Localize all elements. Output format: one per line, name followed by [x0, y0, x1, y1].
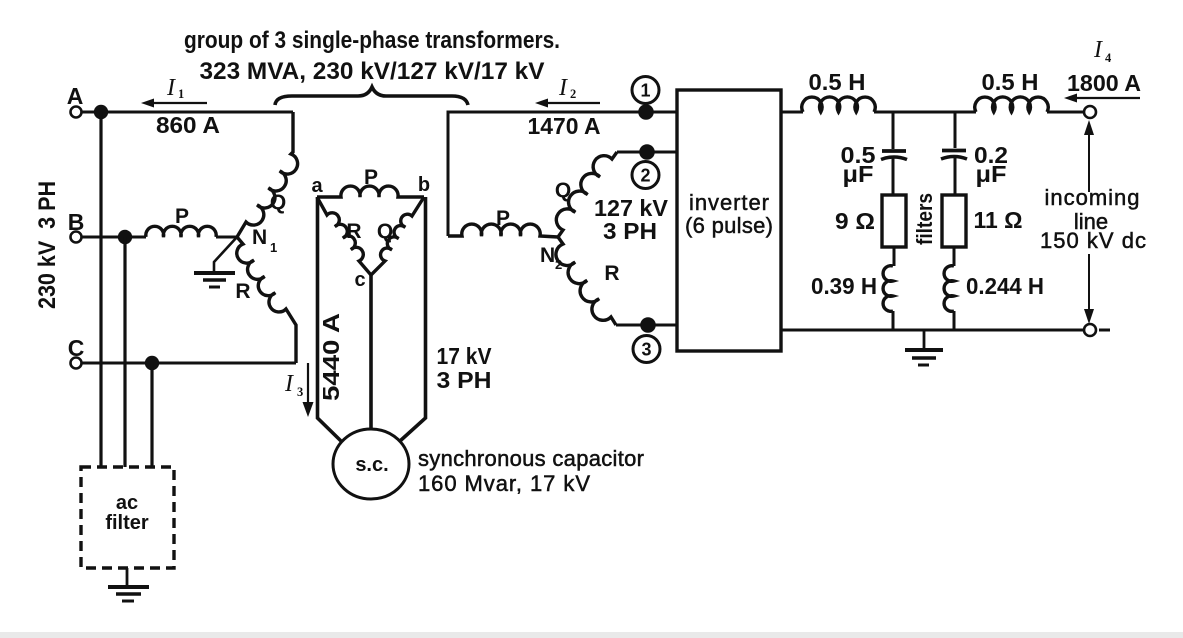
winding R2 coil: [556, 237, 616, 325]
svg-text:1: 1: [178, 87, 184, 101]
wire node3: [616, 324, 677, 327]
node 1 dot: [638, 104, 654, 120]
svg-text:filters: filters: [912, 193, 937, 245]
svg-text:R: R: [346, 220, 361, 243]
current arrow I1: [149, 102, 207, 104]
svg-text:filter: filter: [105, 512, 149, 534]
wire phase A horizontal: [82, 111, 293, 114]
svg-text:17 kV: 17 kV: [437, 343, 493, 369]
winding Q1 coil: [237, 112, 298, 237]
bottom page edge strip: [0, 632, 1183, 638]
svg-text:a: a: [311, 175, 323, 197]
svg-text:3: 3: [297, 385, 303, 399]
ground dc lead: [923, 330, 926, 348]
terminal dc minus: [1084, 324, 1096, 336]
wire P1 to N1: [216, 236, 237, 239]
inductor 0.5 H right: [975, 97, 1048, 112]
svg-text:860 A: 860 A: [156, 112, 220, 138]
node 1 circled: [632, 77, 659, 104]
svg-text:I: I: [284, 371, 294, 397]
node 2 dot: [639, 144, 655, 160]
winding R1 coil: [237, 237, 296, 363]
capacitor 0.2uF plates: [942, 149, 966, 153]
inductor 0.5 H left: [802, 97, 875, 112]
filter branch 2 wire bottom: [953, 311, 956, 330]
svg-text:(6 pulse): (6 pulse): [685, 213, 773, 238]
winding P2 coil: [448, 224, 558, 237]
svg-text:0.244 H: 0.244 H: [966, 273, 1044, 299]
node A junction dot: [94, 105, 108, 119]
svg-text:323 MVA, 230 kV/127 kV/17 kV: 323 MVA, 230 kV/127 kV/17 kV: [200, 58, 545, 85]
wire I2 top: [448, 112, 677, 236]
node 3 circled: [633, 336, 660, 363]
svg-text:b: b: [418, 174, 430, 196]
filter branch 1 wire mid: [892, 158, 895, 196]
svg-text:230 kV 3 PH: 230 kV 3 PH: [34, 181, 61, 309]
inverter box: [677, 90, 781, 351]
capacitor 0.5uF plates: [882, 149, 906, 153]
wire node2: [617, 151, 677, 154]
filter branch 2 wire mid: [954, 157, 957, 195]
svg-text:I: I: [558, 75, 568, 101]
filter branch 1 wire upper: [892, 112, 895, 149]
wire C-dot vertical to ac filter: [150, 363, 153, 467]
ac filter box: [81, 467, 174, 568]
resistor 11 ohm box: [942, 195, 966, 247]
svg-text:0.39 H: 0.39 H: [811, 273, 877, 299]
terminal A: [71, 107, 82, 118]
svg-text:N: N: [252, 226, 267, 249]
svg-text:4: 4: [1105, 51, 1112, 65]
svg-text:0.5 H: 0.5 H: [809, 69, 866, 95]
svg-text:group of 3 single-phase transf: group of 3 single-phase transformers.: [184, 27, 560, 54]
svg-text:11 Ω: 11 Ω: [974, 207, 1023, 233]
wire delta b to s.c.: [400, 197, 426, 441]
svg-text:3 PH: 3 PH: [603, 218, 657, 244]
svg-text:B: B: [68, 209, 85, 235]
svg-text:ac: ac: [116, 492, 138, 514]
svg-text:Q: Q: [377, 220, 393, 243]
inductor 0.39 H: [883, 266, 893, 312]
svg-text:P: P: [496, 207, 510, 230]
svg-text:9 Ω: 9 Ω: [835, 208, 875, 234]
wire dc bottom bus: [781, 329, 1084, 332]
svg-text:N: N: [540, 244, 555, 267]
svg-text:2: 2: [570, 87, 576, 101]
resistor 9 ohm box: [882, 195, 906, 247]
filter branch 2 wire lower: [953, 247, 956, 266]
svg-text:c: c: [354, 269, 365, 291]
node 3 dot: [640, 317, 656, 333]
svg-text:2: 2: [640, 166, 650, 186]
ground at N1 bars: [194, 271, 235, 275]
wire delta a to s.c.: [318, 197, 342, 441]
svg-text:3: 3: [641, 340, 651, 360]
svg-text:inverter: inverter: [689, 190, 769, 215]
svg-text:R: R: [235, 280, 250, 303]
ground below ac filter lead: [126, 568, 129, 586]
terminal dc plus: [1084, 106, 1096, 118]
wire dc top bus: [781, 111, 1084, 114]
svg-text:P: P: [175, 205, 189, 228]
incoming line arrow upper: [1088, 130, 1090, 192]
svg-text:Q: Q: [270, 191, 286, 214]
svg-text:incoming: incoming: [1045, 185, 1140, 210]
node 2 circled: [632, 162, 659, 189]
current arrow I4: [1072, 97, 1140, 99]
ground dc bars: [905, 348, 943, 352]
wire phase B: [82, 236, 146, 239]
current arrow I2: [543, 102, 600, 104]
wire delta c to s.c.: [369, 275, 373, 430]
svg-text:Q: Q: [555, 179, 571, 202]
filter branch 1 wire lower: [893, 247, 896, 266]
winding P delta top coil: [317, 186, 424, 197]
wire A-dot vertical to ac filter: [99, 112, 102, 467]
svg-text:μF: μF: [976, 161, 1007, 187]
winding P1 coil: [146, 226, 216, 237]
svg-text:synchronous capacitor: synchronous capacitor: [418, 446, 644, 471]
svg-text:A: A: [67, 83, 84, 109]
synchronous capacitor circle: [333, 429, 409, 499]
svg-text:I: I: [1093, 37, 1103, 63]
svg-text:μF: μF: [843, 161, 874, 187]
svg-text:C: C: [68, 335, 85, 361]
ground at N1 lead: [214, 237, 237, 272]
label minus: [1099, 329, 1110, 332]
svg-text:1800 A: 1800 A: [1067, 70, 1141, 96]
node B junction dot: [118, 230, 132, 244]
filter branch 1 wire bottom: [892, 311, 895, 330]
svg-text:150 kV dc: 150 kV dc: [1040, 228, 1146, 253]
svg-text:I: I: [166, 75, 176, 101]
svg-text:0.5 H: 0.5 H: [982, 69, 1039, 95]
terminal B: [71, 232, 82, 243]
node C junction dot: [145, 356, 159, 370]
brace: [275, 87, 468, 105]
filter branch 2 wire upper: [954, 112, 957, 148]
terminal C: [71, 358, 82, 369]
svg-text:1: 1: [640, 81, 650, 101]
svg-text:R: R: [604, 262, 619, 285]
svg-text:s.c.: s.c.: [355, 454, 388, 476]
incoming line arrow lower: [1088, 254, 1090, 314]
svg-text:5440 A: 5440 A: [318, 313, 344, 401]
svg-text:1: 1: [270, 240, 277, 255]
winding Q delta right coil: [371, 197, 424, 275]
svg-text:1470 A: 1470 A: [528, 113, 601, 139]
winding Q2 coil: [556, 152, 617, 237]
svg-text:160 Mvar, 17 kV: 160 Mvar, 17 kV: [418, 471, 590, 496]
svg-text:P: P: [364, 166, 378, 189]
svg-text:3 PH: 3 PH: [437, 367, 492, 393]
current arrow I3: [307, 363, 309, 404]
wire phase C: [82, 362, 296, 365]
wire B-dot vertical to ac filter: [123, 237, 126, 467]
inductor 0.244 H: [944, 266, 954, 312]
ground below ac filter bars: [108, 585, 149, 589]
winding R delta left coil: [317, 197, 371, 275]
